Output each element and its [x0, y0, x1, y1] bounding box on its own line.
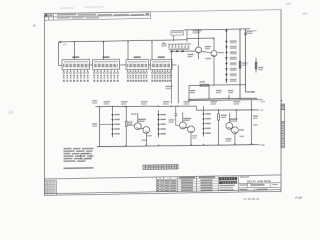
svg-text:P-28: P-28: [296, 196, 303, 200]
svg-text:GND: GND: [260, 145, 265, 147]
svg-text:+12V: +12V: [260, 101, 266, 103]
svg-text:4-7 05 101 4A: 4-7 05 101 4A: [244, 198, 260, 201]
